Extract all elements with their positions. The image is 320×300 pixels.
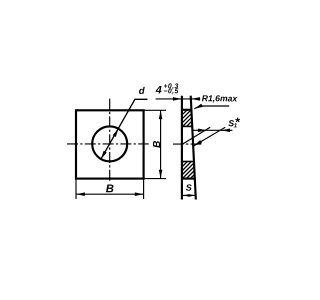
svg-text:B: B (152, 141, 163, 148)
svg-text:R1,6max: R1,6max (202, 93, 239, 103)
svg-text:*: * (235, 115, 240, 129)
svg-text:S: S (186, 183, 192, 193)
svg-text:B: B (106, 183, 114, 195)
svg-text:−0,5: −0,5 (163, 88, 178, 95)
svg-text:4: 4 (155, 84, 162, 96)
